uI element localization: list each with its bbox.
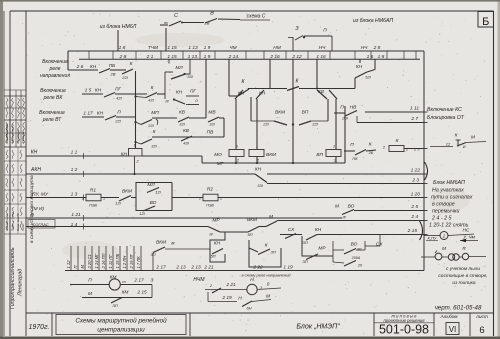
svg-text:МР: МР <box>212 218 220 224</box>
svg-text:2 14.: 2 14. <box>228 54 240 60</box>
svg-text:НС: НС <box>463 228 470 234</box>
svg-text:з: з <box>259 285 262 290</box>
svg-text:Блок НМ6АП: Блок НМ6АП <box>433 180 465 186</box>
contact KV right feed <box>329 90 337 99</box>
svg-text:1 9: 1 9 <box>204 45 211 51</box>
svg-text:АКН: АКН <box>30 167 41 173</box>
left rail terminal ticks <box>83 153 85 159</box>
svg-text:Схемы маршрутной релейной: Схемы маршрутной релейной <box>75 317 167 325</box>
svg-text:1 8: 1 8 <box>378 54 385 60</box>
svg-text:ВО: ВО <box>150 200 157 206</box>
svg-text:22I: 22I <box>311 122 318 127</box>
comb header line <box>65 270 424 272</box>
svg-text:КН: КН <box>121 152 128 158</box>
svg-text:52I: 52I <box>365 75 371 80</box>
svg-text:2 21: 2 21 <box>203 265 214 271</box>
svg-text:КН: КН <box>214 241 221 247</box>
coil VKM mid <box>249 150 264 157</box>
bus drop 1 8 right <box>374 59 376 69</box>
svg-text:1: 1 <box>133 143 135 148</box>
rail 2 3 right <box>267 183 424 185</box>
indicator double circle <box>448 254 454 260</box>
bracket paren near 1 22 <box>425 162 428 180</box>
contact KN-P row3 <box>105 116 116 121</box>
svg-text:М: М <box>80 265 85 269</box>
svg-text:33I: 33I <box>257 183 263 188</box>
svg-text:Блокировка ОТ: Блокировка ОТ <box>427 115 465 121</box>
terminal strip dividers <box>88 51 90 59</box>
svg-text:1 9: 1 9 <box>204 54 211 60</box>
row 4 wire <box>152 136 224 138</box>
svg-text:2В: 2В <box>110 72 116 77</box>
svg-text:П: П <box>350 142 354 148</box>
svg-text:СХ: СХ <box>376 242 383 248</box>
rail 2 15 <box>280 234 302 236</box>
bracket paren near 2 4 <box>420 221 423 240</box>
rail 1 22 right <box>267 173 424 175</box>
svg-text:1 4: 1 4 <box>71 222 78 228</box>
svg-text:2 6: 2 6 <box>76 64 84 70</box>
right riser to coil rail <box>344 106 346 163</box>
svg-text:ПГ: ПГ <box>115 87 121 92</box>
loop around KN-5P <box>210 232 225 262</box>
contact PK-2B <box>355 150 366 156</box>
svg-text:ПЭВ: ПЭВ <box>206 204 214 208</box>
svg-text:направления: направления <box>40 73 70 79</box>
svg-text:КВ: КВ <box>183 128 190 134</box>
svg-text:ПБ: ПБ <box>109 63 115 68</box>
right terminal bus vertical <box>423 51 425 271</box>
svg-text:Подп.: Подп. <box>21 223 25 231</box>
contact KN-PG row2 <box>104 93 115 98</box>
svg-text:501-0-98: 501-0-98 <box>379 323 429 337</box>
svg-text:Блок „НМЭП": Блок „НМЭП" <box>296 324 340 331</box>
title block top line <box>26 312 494 314</box>
svg-text:1: 1 <box>333 144 335 149</box>
svg-text:ВКМ: ВКМ <box>275 110 285 116</box>
svg-text:ЗП: ЗП <box>302 259 307 264</box>
changeover line y88 right <box>299 88 355 90</box>
svg-text:1 11: 1 11 <box>410 106 419 112</box>
svg-text:ВКМ: ВКМ <box>247 217 257 223</box>
top terminal strip <box>68 50 424 52</box>
svg-text:КН: КН <box>255 167 262 173</box>
svg-text:1 2 ПН: 1 2 ПН <box>122 256 127 269</box>
svg-text:КН: КН <box>97 111 104 117</box>
svg-text:КН: КН <box>315 227 322 233</box>
bus tick 1 15 <box>168 59 170 63</box>
branch box bottom <box>302 236 333 256</box>
bus drop 2 16 <box>269 59 271 88</box>
title block verticals <box>51 313 53 336</box>
svg-text:22I: 22I <box>147 123 154 128</box>
svg-text:ВП: ВП <box>302 110 309 116</box>
svg-text:2 3: 2 3 <box>411 178 419 184</box>
svg-text:6Н: 6Н <box>246 306 251 311</box>
svg-text:П: П <box>88 278 92 284</box>
svg-text:Согласовано: Согласовано <box>5 123 9 143</box>
svg-text:М: М <box>335 204 339 210</box>
rail 2 7 <box>357 122 424 124</box>
svg-text:Включение КС: Включение КС <box>427 107 462 113</box>
svg-text:централизации: централизации <box>97 327 145 334</box>
svg-text:12I: 12I <box>139 211 145 216</box>
svg-text:32I: 32I <box>151 144 157 149</box>
svg-text:12: 12 <box>446 142 451 147</box>
svg-text:2 17: 2 17 <box>155 265 166 271</box>
svg-text:КН: КН <box>176 90 183 96</box>
svg-text:2 8: 2 8 <box>373 45 381 51</box>
svg-text:1 1: 1 1 <box>71 150 78 156</box>
svg-text:1 7 ПК: 1 7 ПК <box>136 256 141 269</box>
svg-text:1 2: 1 2 <box>71 167 78 173</box>
svg-text:2 7: 2 7 <box>410 116 418 122</box>
bridge box around MR VO branches <box>136 183 172 198</box>
svg-text:СХ: СХ <box>288 227 295 233</box>
bracket KM rows <box>151 285 153 298</box>
coil bottom rail <box>202 162 345 164</box>
svg-text:Н: Н <box>238 296 242 302</box>
svg-text:ЗП: ЗП <box>112 303 117 308</box>
wire step MR <box>220 231 248 233</box>
rail 2 4 right <box>277 220 424 222</box>
contact lower ZP <box>344 261 356 267</box>
svg-text:2 15 ПГ: 2 15 ПГ <box>129 253 134 269</box>
svg-text:ЗП: ЗП <box>302 240 307 245</box>
svg-text:в схему реле направлений: в схему реле направлений <box>241 273 291 278</box>
svg-text:Утверж: Утверж <box>21 131 25 143</box>
svg-text:1 17: 1 17 <box>83 111 93 117</box>
svg-text:М: М <box>442 246 446 251</box>
row 1 wire <box>68 69 98 71</box>
svg-text:2 12: 2 12 <box>291 54 302 60</box>
svg-text:Включение: Включение <box>39 110 65 116</box>
svg-text:НЧМ: НЧМ <box>193 277 205 283</box>
svg-text:43I: 43I <box>183 141 189 146</box>
svg-text:МП: МП <box>151 110 159 116</box>
svg-text:2 16: 2 16 <box>269 54 280 60</box>
svg-text:Н: Н <box>250 277 254 283</box>
left branch vertical <box>250 97 252 118</box>
sidebar column lines <box>25 11 27 336</box>
rail 1 20 right <box>218 197 424 199</box>
svg-text:ВП: ВП <box>316 152 323 158</box>
svg-text:1 15 ПБ: 1 15 ПБ <box>115 253 120 268</box>
svg-text:М: М <box>88 291 92 297</box>
svg-text:с учетом пыли: с учетом пыли <box>446 267 480 272</box>
svg-text:5П: 5П <box>210 254 215 259</box>
svg-text:из блока НМ6Л: из блока НМ6Л <box>100 24 137 30</box>
bracket N rows <box>207 292 209 302</box>
svg-text:1 5: 1 5 <box>85 88 92 94</box>
contact KN-52I <box>354 78 356 89</box>
svg-text:КВ: КВ <box>179 110 186 116</box>
svg-text:Подп. и дата: Подп. и дата <box>11 212 15 231</box>
svg-text:из типика: из типика <box>452 281 475 286</box>
center wire to coil rail <box>292 125 294 164</box>
svg-text:2 15: 2 15 <box>136 290 147 296</box>
feeder to rows vertical <box>135 71 137 149</box>
svg-text:42I: 42I <box>116 96 122 101</box>
svg-text:2 17: 2 17 <box>133 278 144 284</box>
sidebar handwriting squiggles <box>6 98 8 118</box>
svg-text:черт. 601-05-48: черт. 601-05-48 <box>435 305 482 312</box>
svg-text:М: М <box>269 214 273 220</box>
svg-text:6: 6 <box>479 325 484 336</box>
sidebar stamp table <box>4 89 26 91</box>
svg-text:ЗП: ЗП <box>357 248 362 252</box>
svg-text:Инв.№ подл.: Инв.№ подл. <box>5 213 9 231</box>
svg-text:реле ВТ: реле ВТ <box>42 117 62 123</box>
svg-text:ЧМ: ЧМ <box>229 45 236 51</box>
svg-text:НВ: НВ <box>350 105 357 111</box>
wire ML to 1 13 divider <box>185 59 191 74</box>
svg-text:20I: 20I <box>341 116 348 121</box>
title name box <box>56 315 186 335</box>
svg-text:32I: 32I <box>209 122 215 127</box>
contact K-32I row4 <box>134 141 136 143</box>
svg-text:КН: КН <box>90 64 97 70</box>
svg-text:1 22: 1 22 <box>411 168 421 174</box>
svg-text:32I: 32I <box>179 122 185 127</box>
svg-text:КН: КН <box>356 64 363 70</box>
svg-text:Взам. инв.№: Взам. инв.№ <box>16 213 20 231</box>
svg-text:Ленинград: Ленинград <box>18 269 24 297</box>
svg-text:НЧ: НЧ <box>361 45 368 51</box>
svg-text:ПГ: ПГ <box>190 89 196 94</box>
svg-text:22I: 22I <box>114 119 121 124</box>
svg-text:2 21: 2 21 <box>225 282 236 288</box>
svg-text:1 20: 1 20 <box>411 192 421 198</box>
contact KN-PB row1 <box>99 69 110 74</box>
bus drop 1 16 <box>316 59 318 88</box>
svg-text:КМ: КМ <box>110 275 117 281</box>
svg-text:НМ: НМ <box>273 45 280 51</box>
svg-text:200А: 200А <box>351 256 361 260</box>
svg-text:2 8: 2 8 <box>119 54 127 60</box>
svg-text:ПК: ПК <box>352 156 358 161</box>
svg-text:лист: лист <box>475 315 488 320</box>
row P K resistor <box>344 150 355 152</box>
svg-text:В: В <box>210 11 214 17</box>
bus drop 2 12 center <box>292 59 294 124</box>
svg-text:0: 0 <box>267 282 270 287</box>
svg-text:1 21: 1 21 <box>71 212 81 218</box>
svg-text:1 12: 1 12 <box>66 260 71 269</box>
changeover line y88 left <box>248 88 287 90</box>
comb output wires <box>70 246 72 271</box>
row 2 wire <box>82 93 103 95</box>
svg-text:нс: нс <box>164 20 168 25</box>
svg-text:1 15: 1 15 <box>167 54 177 60</box>
svg-text:из блока НМ6АП: из блока НМ6АП <box>353 18 393 24</box>
svg-text:П: П <box>323 28 327 34</box>
svg-text:ПВ: ПВ <box>207 130 214 136</box>
svg-text:М: М <box>266 294 270 300</box>
svg-text:2 13: 2 13 <box>175 265 186 271</box>
wire from NMBL down to bus <box>117 30 119 51</box>
svg-text:5П: 5П <box>247 232 252 237</box>
svg-text:З: З <box>151 278 154 284</box>
svg-text:П: П <box>340 105 344 111</box>
drawing frame <box>10 10 494 12</box>
left feeder corner <box>67 51 69 70</box>
svg-text:И: И <box>463 144 466 149</box>
contact MP-22I row3 <box>134 121 136 123</box>
svg-text:ЗП: ЗП <box>270 250 275 255</box>
svg-text:1 19: 1 19 <box>283 265 293 271</box>
rail 2 5 right <box>354 210 424 212</box>
svg-text:1970г.: 1970г. <box>29 324 50 331</box>
svg-text:(М И): (М И) <box>32 206 44 212</box>
sheet mark box B <box>478 12 494 28</box>
svg-text:1 8: 1 8 <box>119 45 126 51</box>
contact K-42I row2 <box>134 95 136 97</box>
svg-text:2 13: 2 13 <box>190 265 201 271</box>
svg-text:2 22: 2 22 <box>252 265 263 271</box>
contact 6N <box>242 301 252 307</box>
rail 1 11 <box>365 111 424 113</box>
rail end ticks <box>424 111 428 113</box>
svg-text:ПУ, МУ: ПУ, МУ <box>32 192 49 198</box>
svg-text:12I: 12I <box>115 201 121 206</box>
svg-text:2 15: 2 15 <box>407 228 418 234</box>
svg-text:2 4 - 2 5: 2 4 - 2 5 <box>431 216 451 222</box>
svg-text:ВО: ВО <box>348 204 355 210</box>
bus drop 2 14 <box>228 59 230 96</box>
svg-text:Включение: Включение <box>40 88 66 94</box>
svg-text:1 13.: 1 13. <box>188 54 199 60</box>
svg-text:33I: 33I <box>187 74 193 79</box>
svg-text:МЛ: МЛ <box>147 182 155 188</box>
svg-text:состоящие в створе,: состоящие в створе, <box>438 274 487 279</box>
svg-text:Проверил: Проверил <box>16 129 20 143</box>
bus drop 1 9 vertical <box>205 59 207 118</box>
svg-text:К,ПУ: К,ПУ <box>428 236 437 241</box>
svg-text:М: М <box>471 135 475 141</box>
left branch vertical x165 <box>164 72 166 99</box>
svg-text:2 19: 2 19 <box>221 295 232 301</box>
svg-text:МО: МО <box>214 152 222 158</box>
svg-text:ВКМ: ВКМ <box>122 189 132 195</box>
svg-text:2 4: 2 4 <box>410 214 418 220</box>
motor N circle <box>247 284 257 294</box>
svg-text:Гипротранссигналсвязь: Гипротранссигналсвязь <box>10 247 16 309</box>
svg-text:42I: 42I <box>148 98 154 103</box>
arrow to NS <box>448 234 474 236</box>
svg-text:реле ВК: реле ВК <box>43 95 64 101</box>
svg-text:2 1: 2 1 <box>146 54 154 60</box>
svg-text:1: 1 <box>199 197 201 201</box>
svg-text:ВКМ: ВКМ <box>156 240 166 246</box>
svg-text:1 6: 1 6 <box>367 54 374 60</box>
svg-text:реле: реле <box>49 66 61 72</box>
svg-text:МЛ: МЛ <box>175 65 183 71</box>
svg-text:22I: 22I <box>121 75 128 80</box>
svg-text:1 3: 1 3 <box>71 192 78 198</box>
drop KN coil to AKN rail <box>134 156 136 174</box>
svg-text:2 5: 2 5 <box>410 204 418 210</box>
loop around K-ZP <box>249 240 281 267</box>
svg-text:МГ: МГ <box>217 161 224 167</box>
wire row3 to vertical <box>223 118 225 137</box>
svg-text:МВ: МВ <box>208 110 216 116</box>
svg-text:МР: МР <box>318 246 326 252</box>
svg-text:R2: R2 <box>207 187 213 193</box>
svg-text:ВКМ: ВКМ <box>266 152 276 158</box>
svg-text:схема С: схема С <box>247 14 266 20</box>
svg-text:НЧ: НЧ <box>319 45 326 51</box>
svg-text:ПЭВ: ПЭВ <box>89 204 97 208</box>
wire stub to K contact <box>229 95 238 97</box>
jog to coil bottom rail <box>201 156 203 163</box>
svg-text:Москва вязки: Москва вязки <box>11 124 15 143</box>
rail SOGLAS 1 4 <box>28 220 55 229</box>
svg-text:Б: Б <box>482 16 489 28</box>
svg-text:VI: VI <box>449 325 457 334</box>
N second row <box>208 301 237 303</box>
svg-text:Включение: Включение <box>42 59 68 65</box>
svg-text:КМ: КМ <box>122 290 129 296</box>
svg-text:20: 20 <box>357 264 362 268</box>
svg-text:КН: КН <box>95 88 102 94</box>
svg-text:R1: R1 <box>90 188 96 194</box>
bus drop 1 6 tick <box>359 59 361 63</box>
svg-text:Альбом: Альбом <box>439 314 458 320</box>
svg-text:С: С <box>174 13 178 19</box>
svg-text:КН: КН <box>31 150 38 156</box>
svg-text:22I: 22I <box>262 122 269 127</box>
row 3 wire <box>82 116 104 118</box>
svg-text:П: П <box>73 266 78 269</box>
svg-text:1 16: 1 16 <box>316 54 326 60</box>
